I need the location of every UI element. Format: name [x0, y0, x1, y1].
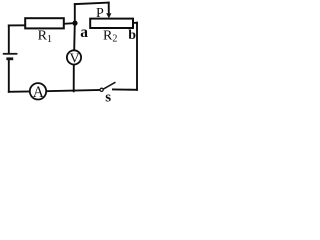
svg-text:a: a: [80, 24, 88, 41]
svg-text:A: A: [33, 84, 45, 101]
wiper arrowhead: [106, 13, 111, 18]
wire left vertical (battery to bottom corner): [8, 60, 10, 92]
svg-text:V: V: [70, 52, 80, 67]
resistor R1: [25, 18, 64, 28]
svg-text:b: b: [128, 28, 136, 43]
potentiometer R2: [90, 19, 133, 28]
wire junction up to top-right run: [74, 4, 76, 23]
wire top-right horizontal to wiper: [75, 3, 109, 5]
switch s lever: [103, 82, 115, 89]
node junction dot: [72, 21, 77, 26]
voltmeter U1: [67, 50, 81, 64]
wire bottom-left (corner to ammeter): [9, 91, 30, 93]
wire voltmeter upper lead: [73, 23, 76, 50]
wire top-left horizontal: [9, 24, 25, 26]
wire right vertical: [136, 23, 138, 90]
wire bottom-middle (ammeter to switch): [46, 90, 100, 91]
svg-text:s: s: [105, 90, 111, 104]
svg-text:P: P: [96, 6, 104, 21]
ammeter U2: [30, 83, 46, 99]
wire bottom-right (switch to corner): [113, 88, 137, 90]
battery cell: [3, 54, 18, 59]
wire R2 right terminal b to right wire: [133, 22, 137, 24]
wire left vertical (top half, corner to battery): [8, 25, 10, 53]
wire wiper arrow shaft: [108, 3, 110, 14]
wire voltmeter lower lead: [73, 64, 75, 91]
switch s pivot: [100, 88, 103, 91]
wire R1 right to junction: [64, 22, 75, 25]
